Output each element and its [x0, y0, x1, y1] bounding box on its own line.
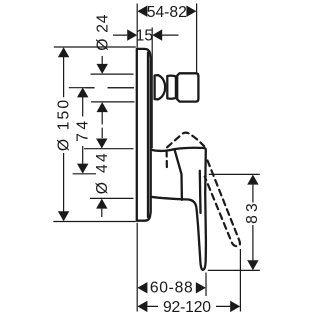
dim 92-120 — [137, 249, 240, 316]
spindle cylinder — [167, 76, 176, 99]
blade inner line — [199, 171, 202, 213]
svg-text:Ø 24: Ø 24 — [94, 14, 111, 50]
svg-text:Ø 150: Ø 150 — [56, 100, 73, 152]
dim 74 + centerline ref — [69, 87, 134, 173]
dashed lever blade (raised position) upper edge — [205, 161, 240, 247]
spindle dome — [155, 75, 166, 99]
handle boss top — [151, 149, 175, 151]
dim Ø44 — [84, 139, 134, 218]
plate escutcheon side view — [137, 49, 151, 221]
spindle end block — [177, 73, 198, 101]
svg-text:Ø 44: Ø 44 — [94, 153, 111, 194]
svg-text:15: 15 — [136, 28, 154, 45]
dim 15 — [113, 28, 179, 149]
spindle centerline — [85, 87, 134, 89]
dim Ø24 — [91, 14, 135, 138]
svg-text:60-88: 60-88 — [150, 279, 193, 296]
svg-text:54-82: 54-82 — [147, 4, 187, 21]
handle grip + lever blade — [166, 148, 206, 270]
svg-text:92-120: 92-120 — [163, 299, 211, 316]
dim Ø150 — [53, 47, 136, 222]
dim 54-82 top — [137, 4, 196, 73]
dim 60-88 — [137, 223, 206, 312]
grip front crease — [175, 149, 182, 199]
dim 83 — [208, 174, 261, 270]
handle boss bottom — [151, 197, 166, 199]
dashed grip (raised position) — [166, 151, 168, 171]
